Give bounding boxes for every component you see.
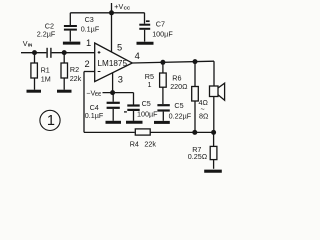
svg-text:0.1µF: 0.1µF <box>81 25 100 34</box>
svg-text:1: 1 <box>47 113 55 129</box>
svg-text:C7: C7 <box>156 20 165 29</box>
svg-text:3: 3 <box>118 75 123 85</box>
svg-text:IN: IN <box>28 43 33 48</box>
svg-text:C5: C5 <box>142 99 151 108</box>
svg-text:LM1875: LM1875 <box>98 59 128 68</box>
svg-text:5: 5 <box>117 42 122 52</box>
svg-text:2.2µF: 2.2µF <box>37 29 56 38</box>
svg-text:+V: +V <box>114 2 123 11</box>
svg-text:220Ω: 220Ω <box>170 82 188 91</box>
svg-text:1M: 1M <box>41 74 51 83</box>
svg-text:EE: EE <box>95 92 101 97</box>
svg-text:C3: C3 <box>85 15 94 24</box>
svg-text:1: 1 <box>86 38 91 48</box>
svg-text:R2: R2 <box>70 65 79 74</box>
svg-text:0.1µF: 0.1µF <box>85 111 104 120</box>
svg-text:100µF: 100µF <box>152 30 173 39</box>
svg-text:R6: R6 <box>172 73 181 82</box>
svg-text:22k: 22k <box>70 74 82 83</box>
svg-text:R4: R4 <box>130 139 139 148</box>
svg-text:1: 1 <box>148 80 152 89</box>
svg-text:4: 4 <box>135 51 140 61</box>
svg-text:C5: C5 <box>174 101 183 110</box>
svg-text:0.22µF: 0.22µF <box>169 112 192 121</box>
svg-text:R1: R1 <box>41 65 50 74</box>
svg-text:22k: 22k <box>144 139 156 148</box>
svg-text:CC: CC <box>124 6 131 11</box>
svg-text:0.25Ω: 0.25Ω <box>188 152 208 161</box>
svg-text:2: 2 <box>85 59 90 69</box>
svg-text:8Ω: 8Ω <box>199 111 209 120</box>
svg-text:100µF: 100µF <box>137 109 158 118</box>
